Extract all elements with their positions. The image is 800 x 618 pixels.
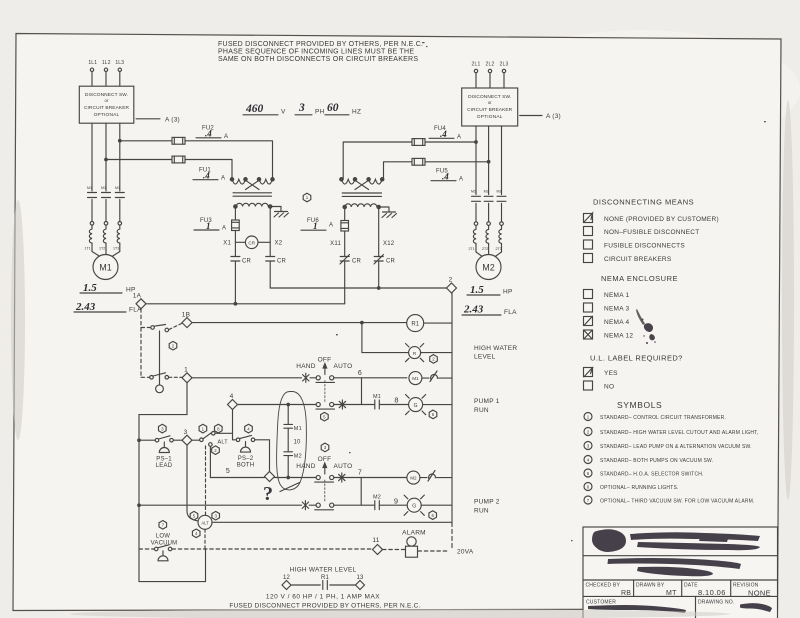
pressure switch PS-2 BOTH bbox=[236, 435, 255, 468]
svg-text:CR: CR bbox=[277, 259, 287, 265]
hand-drawn oval around M1/10/M2 contacts bbox=[277, 391, 307, 489]
node 11 diamond bbox=[372, 537, 382, 555]
dashed alarm rung 20VA bbox=[139, 549, 448, 551]
svg-text:.4: .4 bbox=[442, 172, 449, 182]
node 2 diamond bbox=[447, 277, 457, 294]
value label 2.43 FLA (handwritten) bbox=[74, 301, 142, 314]
node X11 bbox=[330, 231, 345, 256]
svg-text:PH: PH bbox=[315, 109, 325, 116]
svg-text:NONE: NONE bbox=[748, 588, 771, 597]
svg-text:X12: X12 bbox=[383, 241, 395, 247]
label HIGH WATER LEVEL (bottom) bbox=[290, 567, 357, 574]
svg-text:LOW: LOW bbox=[156, 534, 170, 540]
svg-text:8.10.06: 8.10.06 bbox=[698, 588, 726, 597]
node X12 bbox=[379, 209, 395, 256]
node 1L2 bbox=[102, 60, 111, 72]
alternator relay ALT bbox=[198, 515, 452, 549]
ground for T2 secondary bbox=[379, 207, 397, 218]
title block frame bbox=[583, 527, 778, 618]
label fused disconnect note (bottom) bbox=[229, 603, 420, 610]
value label 2.43 FLA motor 2 (handwritten) bbox=[462, 304, 517, 317]
fuse FU2 bbox=[119, 126, 273, 180]
title block redaction blob row 2 bbox=[608, 558, 742, 576]
svg-text:A: A bbox=[222, 226, 226, 232]
checkbox NONE (checked) bbox=[584, 213, 719, 223]
svg-text:HAND: HAND bbox=[296, 363, 315, 370]
svg-text:NEMA 12: NEMA 12 bbox=[604, 333, 633, 340]
svg-text:STANDARD– H.O.A. SELECTOR SWI: STANDARD– H.O.A. SELECTOR SWITCH. bbox=[600, 472, 704, 478]
svg-text:OFF: OFF bbox=[318, 456, 332, 463]
node X1 bbox=[223, 231, 235, 257]
contact CR (NC) on X12 bbox=[374, 255, 396, 289]
svg-text:NO: NO bbox=[604, 384, 614, 391]
svg-text:A (3): A (3) bbox=[546, 113, 561, 120]
symbol hexagon 2 (alarm light) bbox=[430, 355, 438, 364]
node label 8 bbox=[394, 396, 398, 405]
contact R1 (bottom) bbox=[291, 575, 356, 590]
svg-text:A (3): A (3) bbox=[165, 116, 180, 123]
svg-text:2.43: 2.43 bbox=[463, 304, 484, 316]
float switch contact A bbox=[151, 325, 169, 332]
selector 2 star contact (hand) bbox=[302, 501, 308, 510]
svg-text:X11: X11 bbox=[330, 241, 341, 247]
svg-text:HP: HP bbox=[503, 289, 513, 296]
symbol legend 7 bbox=[584, 496, 755, 505]
wire M2 feeder phase drops bbox=[476, 126, 502, 195]
selector 2 shaft with arrow bbox=[323, 463, 327, 503]
svg-text:FUSED DISCONNECT PROVIDED BY O: FUSED DISCONNECT PROVIDED BY OTHERS, PER… bbox=[218, 41, 423, 48]
wire dashes to node 1 bbox=[169, 376, 182, 378]
contact CR (NC) on X11 bbox=[340, 255, 362, 304]
svg-text:G: G bbox=[414, 403, 418, 409]
label PUMP 1 RUN bbox=[474, 398, 500, 414]
label A (3) for DS1 bbox=[136, 116, 180, 123]
svg-text:5: 5 bbox=[226, 468, 230, 475]
symbol legend 2 bbox=[584, 428, 758, 437]
svg-text:1: 1 bbox=[313, 221, 318, 231]
svg-text:6: 6 bbox=[358, 370, 362, 377]
node 13 diamond bbox=[356, 575, 365, 590]
checkbox NEMA 4 (checked) bbox=[584, 316, 630, 326]
svg-text:M2: M2 bbox=[410, 476, 417, 481]
svg-text:?: ? bbox=[263, 483, 273, 505]
transformer T2 core bbox=[342, 193, 381, 196]
svg-text:4: 4 bbox=[230, 393, 234, 400]
symbol hexagon 3 (PS-1) bbox=[159, 424, 167, 433]
svg-text:OPTIONAL– RUNNING LIGHTS.: OPTIONAL– RUNNING LIGHTS. bbox=[600, 485, 679, 491]
svg-text:HIGH WATER: HIGH WATER bbox=[474, 345, 517, 352]
heading NEMA ENCLOSURE bbox=[601, 274, 678, 283]
checkbox NON-FUSIBLE DISCONNECT bbox=[584, 227, 700, 237]
svg-text:FLA: FLA bbox=[504, 309, 517, 316]
value label 460 V (handwritten) bbox=[243, 103, 286, 116]
contactor coil M1 bbox=[409, 372, 422, 385]
svg-text:X1: X1 bbox=[223, 241, 231, 247]
checkbox NO bbox=[584, 381, 615, 391]
node label 9 bbox=[394, 497, 398, 506]
checkbox NEMA 3 bbox=[584, 303, 630, 313]
overload contact OL for M2 coil bbox=[420, 471, 452, 482]
symbol hexagon 7 (low vacuum sw) bbox=[159, 521, 167, 530]
auxiliary contact M1 bbox=[373, 394, 381, 409]
wire left rail dashed (float switch feed) bbox=[141, 309, 151, 378]
svg-text:M1: M1 bbox=[99, 263, 112, 273]
heading U.L. LABEL REQUIRED? bbox=[590, 354, 683, 363]
svg-text:R1: R1 bbox=[321, 575, 330, 581]
wire node 1 down to left rail bbox=[139, 383, 187, 582]
svg-text:2T2: 2T2 bbox=[482, 247, 488, 251]
svg-text:PHASE SEQUENCE OF INCOMING LIN: PHASE SEQUENCE OF INCOMING LINES MUST BE… bbox=[218, 49, 414, 56]
svg-text:YES: YES bbox=[604, 370, 618, 377]
pilot light R (high water alarm) bbox=[406, 344, 453, 362]
svg-text:HAND: HAND bbox=[296, 463, 315, 470]
svg-text:.4: .4 bbox=[440, 129, 447, 139]
svg-text:SAME ON BOTH DISCONNECTS OR CI: SAME ON BOTH DISCONNECTS OR CIRCUIT BREA… bbox=[218, 56, 418, 63]
svg-text:CR: CR bbox=[242, 259, 252, 265]
svg-text:M1: M1 bbox=[87, 186, 92, 190]
svg-text:SYMBOLS: SYMBOLS bbox=[617, 400, 662, 410]
symbol hexagon 2 (float sw) bbox=[169, 341, 177, 350]
node 6 junction bbox=[358, 370, 362, 405]
svg-text:OPTIONAL: OPTIONAL bbox=[94, 112, 120, 118]
svg-text:1L3: 1L3 bbox=[115, 60, 124, 66]
svg-text:HZ: HZ bbox=[352, 109, 361, 116]
label PUMP 2 RUN bbox=[474, 499, 500, 515]
svg-text:NON–FUSIBLE DISCONNECT: NON–FUSIBLE DISCONNECT bbox=[604, 229, 699, 236]
svg-text:9: 9 bbox=[394, 497, 398, 506]
overload contact OL for M1 coil bbox=[422, 371, 452, 382]
pressure switch PS-1 LEAD bbox=[155, 436, 173, 469]
pilot light G pump 2 bbox=[404, 495, 452, 515]
selector 2 contacts bottom bbox=[315, 503, 334, 510]
ink blot near NEMA 4 bbox=[636, 309, 656, 344]
svg-text:M1: M1 bbox=[294, 426, 302, 432]
svg-text:RUN: RUN bbox=[474, 508, 489, 515]
transformer T2 secondary bbox=[343, 204, 380, 209]
symbol legend 3 bbox=[584, 442, 752, 451]
value label 60 HZ (handwritten) bbox=[325, 102, 361, 116]
symbol hexagon 3 (selector 2) bbox=[321, 443, 329, 452]
wire drop to R lamp rung bbox=[362, 323, 409, 353]
alternator switch ALT bbox=[192, 432, 233, 447]
customer redaction blob bbox=[588, 605, 686, 613]
svg-text:ALT: ALT bbox=[201, 520, 209, 525]
wire M1 feeder phase drops bbox=[92, 123, 120, 191]
symbol hexagon 2 (below alt) bbox=[212, 446, 220, 455]
heading DISCONNECTING MEANS bbox=[593, 198, 694, 207]
svg-text:STANDARD– LEAD PUMP ON & ALTE: STANDARD– LEAD PUMP ON & ALTERNATION VAC… bbox=[600, 444, 752, 450]
symbol hexagon 4 (alt relay) bbox=[192, 529, 200, 538]
svg-text:2T3: 2T3 bbox=[496, 247, 502, 251]
svg-text:DRAWING NO.: DRAWING NO. bbox=[698, 600, 734, 606]
node 12 diamond bbox=[282, 575, 291, 590]
svg-text:CIRCUIT BREAKERS: CIRCUIT BREAKERS bbox=[604, 256, 672, 263]
svg-text:M1: M1 bbox=[101, 186, 106, 190]
svg-text:2L1: 2L1 bbox=[472, 62, 481, 68]
motor M2 bbox=[476, 255, 501, 280]
symbol hexagon 5 (selector 1) bbox=[321, 412, 329, 421]
label LOW VACUUM bbox=[151, 534, 178, 547]
fuse FU5 bbox=[384, 158, 490, 182]
value label 1.5 HP (handwritten) bbox=[80, 282, 136, 294]
low vacuum pressure switch bbox=[154, 545, 172, 561]
symbol legend 5 bbox=[584, 469, 704, 478]
rung 1B to relay R1 bbox=[192, 321, 407, 324]
label HIGH WATER LEVEL bbox=[474, 345, 517, 361]
svg-text:2L3: 2L3 bbox=[500, 62, 509, 68]
checkbox YES (checked) bbox=[584, 367, 619, 377]
fuse FU4 bbox=[343, 126, 477, 179]
ground for T1 secondary bbox=[270, 207, 288, 218]
title block labels bbox=[586, 583, 771, 606]
svg-text:M1: M1 bbox=[115, 186, 120, 190]
svg-text:M2: M2 bbox=[373, 495, 381, 501]
svg-text:20VA: 20VA bbox=[457, 549, 474, 556]
svg-text:HIGH WATER LEVEL: HIGH WATER LEVEL bbox=[290, 567, 357, 574]
wire rung 1A (X1/X11 hot) bbox=[146, 303, 345, 306]
svg-text:1L2: 1L2 bbox=[102, 60, 111, 66]
symbol hexagon 1 (control circuit transformer) bbox=[303, 193, 311, 202]
svg-text:OPTIONAL: OPTIONAL bbox=[477, 114, 503, 120]
wire 2L1-2L3 drops into disconnect switch 2 bbox=[476, 73, 504, 88]
float switch contact B bbox=[150, 373, 169, 379]
symbol legend 6 bbox=[584, 483, 679, 492]
svg-text:STANDARD– CONTROL CIRCUIT TRA: STANDARD– CONTROL CIRCUIT TRANSFORMER. bbox=[600, 415, 726, 421]
alarm bell bbox=[402, 530, 426, 558]
checkbox NEMA 1 bbox=[584, 290, 630, 300]
rung 9: left rail to G lamp 2 bbox=[138, 504, 408, 507]
svg-text:1.5: 1.5 bbox=[470, 284, 484, 296]
fuse FU3 bbox=[194, 208, 239, 231]
svg-text:M2: M2 bbox=[497, 190, 502, 194]
svg-text:CHECKED BY: CHECKED BY bbox=[586, 583, 621, 589]
fuse FU6 bbox=[301, 209, 349, 231]
svg-text:1T1: 1T1 bbox=[85, 247, 91, 251]
disconnect switch DS2 (optional) bbox=[462, 88, 518, 126]
svg-text:CUSTOMER: CUSTOMER bbox=[586, 600, 616, 606]
svg-text:NONE (PROVIDED BY CUSTOMER): NONE (PROVIDED BY CUSTOMER) bbox=[604, 216, 719, 223]
symbol hexagon 6 (running light 2) bbox=[429, 511, 437, 520]
selector 2 labels HAND OFF AUTO bbox=[296, 456, 352, 470]
rung 1: H-O-A selector 1 top row bbox=[192, 377, 407, 379]
value label 3 PH (handwritten) bbox=[295, 102, 325, 116]
svg-text:A: A bbox=[459, 177, 463, 183]
svg-text:.4: .4 bbox=[203, 171, 210, 181]
selector 1 star contact (hand) bbox=[303, 373, 309, 382]
svg-text:1T3: 1T3 bbox=[113, 247, 119, 251]
svg-text:CIRCUIT BREAKER: CIRCUIT BREAKER bbox=[467, 107, 513, 113]
symbol hexagon 5 (alt relay) bbox=[190, 511, 198, 520]
wire PS-2 to node 5 bbox=[255, 440, 270, 472]
svg-text:460: 460 bbox=[245, 103, 264, 115]
svg-text:3: 3 bbox=[298, 102, 305, 114]
svg-text:1.5: 1.5 bbox=[83, 282, 97, 294]
transformer T1 secondary bbox=[234, 203, 272, 208]
svg-text:NEMA ENCLOSURE: NEMA ENCLOSURE bbox=[601, 274, 678, 283]
selector 1 star contact (auto) bbox=[339, 400, 345, 409]
transformer T1 primary bbox=[230, 178, 274, 190]
relay coil CR bbox=[235, 236, 270, 249]
auxiliary contact M2 bbox=[373, 495, 381, 510]
contact CR on X1 bbox=[231, 257, 252, 304]
title block redaction blob row 1 bbox=[592, 529, 760, 552]
svg-text:MT: MT bbox=[666, 590, 677, 597]
svg-text:or: or bbox=[105, 98, 109, 103]
symbol hexagon 8 (alt sw) bbox=[215, 424, 223, 433]
svg-text:DISCONNECTING MEANS: DISCONNECTING MEANS bbox=[593, 198, 694, 207]
svg-text:A: A bbox=[457, 135, 461, 141]
svg-text:1L1: 1L1 bbox=[88, 60, 97, 66]
svg-text:A: A bbox=[329, 223, 333, 229]
disconnect switch DS1 (optional) bbox=[79, 86, 134, 123]
node 1L1 bbox=[88, 60, 97, 72]
svg-text:11: 11 bbox=[372, 537, 379, 544]
heading SYMBOLS bbox=[617, 400, 662, 410]
checkbox CIRCUIT BREAKERS bbox=[584, 254, 672, 264]
rung 8: node 4 to G lamp 1 bbox=[238, 404, 409, 406]
node 4 diamond bbox=[228, 393, 238, 410]
contactor M2 power contacts bbox=[471, 190, 506, 226]
svg-text:1B: 1B bbox=[182, 312, 190, 319]
low vacuum box outline bbox=[139, 549, 206, 582]
svg-text:M2: M2 bbox=[471, 190, 476, 194]
wire right ladder rail bbox=[451, 293, 453, 549]
svg-text:RB: RB bbox=[621, 590, 631, 597]
svg-text:ALARM: ALARM bbox=[402, 530, 426, 537]
contactor M1 power contacts bbox=[87, 186, 124, 225]
svg-text:M2: M2 bbox=[294, 454, 302, 460]
selector 1 labels HAND OFF AUTO bbox=[296, 357, 352, 371]
symbol legend 4 bbox=[584, 456, 713, 465]
svg-text:DRAWN BY: DRAWN BY bbox=[636, 583, 665, 589]
svg-text:AUTO: AUTO bbox=[334, 463, 353, 470]
svg-text:8: 8 bbox=[394, 396, 398, 405]
svg-text:FUSED DISCONNECT PROVIDED BY O: FUSED DISCONNECT PROVIDED BY OTHERS, PER… bbox=[229, 603, 420, 610]
interlock contact string M1 / 10 / M2 bbox=[284, 403, 302, 479]
svg-text:DATE: DATE bbox=[684, 583, 698, 589]
selector 1 shaft with arrow bbox=[323, 364, 327, 404]
transformer T2 primary bbox=[340, 178, 384, 190]
wire rung 2 (X2/X12 common to node 2) bbox=[270, 287, 446, 290]
label 120V rating bbox=[266, 594, 380, 601]
overload heaters M2 bbox=[469, 225, 502, 256]
checkbox FUSIBLE DISCONNECTS bbox=[584, 240, 686, 250]
fuse FU1 bbox=[105, 156, 232, 181]
svg-text:2: 2 bbox=[449, 277, 453, 284]
svg-text:ALT: ALT bbox=[218, 440, 229, 446]
svg-text:RUN: RUN bbox=[474, 407, 489, 414]
float switch mechanical link and ball bbox=[156, 331, 164, 393]
overload heaters M1 bbox=[85, 225, 120, 256]
svg-text:2L2: 2L2 bbox=[486, 62, 495, 68]
svg-text:CR: CR bbox=[386, 259, 396, 265]
svg-text:A: A bbox=[221, 176, 225, 182]
contact CR on X2 bbox=[266, 257, 287, 289]
transformer T1 core bbox=[233, 193, 272, 196]
svg-text:U.L. LABEL REQUIRED?: U.L. LABEL REQUIRED? bbox=[590, 354, 683, 363]
svg-text:or: or bbox=[488, 100, 492, 105]
svg-text:X2: X2 bbox=[275, 241, 283, 247]
node 1A diamond bbox=[133, 293, 146, 309]
label A (3) for DS2 bbox=[520, 113, 561, 120]
svg-text:2T1: 2T1 bbox=[469, 247, 475, 251]
svg-text:PS–1: PS–1 bbox=[156, 457, 172, 463]
svg-text:NEMA 1: NEMA 1 bbox=[604, 292, 629, 299]
svg-text:1T2: 1T2 bbox=[99, 247, 105, 251]
svg-text:PUMP 2: PUMP 2 bbox=[474, 499, 500, 506]
svg-text:LEAD: LEAD bbox=[156, 463, 173, 469]
svg-text:CR: CR bbox=[248, 240, 255, 245]
node 5 diamond bbox=[226, 468, 275, 482]
svg-text:10: 10 bbox=[294, 440, 302, 446]
svg-text:CR: CR bbox=[352, 259, 362, 265]
node 7 junction bbox=[358, 470, 362, 506]
svg-text:LEVEL: LEVEL bbox=[474, 354, 496, 361]
rung PS-1: left rail to alternator switch bbox=[138, 439, 182, 442]
pilot light G pump 1 bbox=[406, 395, 453, 415]
wire dashes to node 1B bbox=[169, 324, 182, 330]
node 2L3 bbox=[500, 62, 509, 73]
svg-text:OPTIONAL– THIRD VACUUM SW. FO: OPTIONAL– THIRD VACUUM SW. FOR LOW VACUU… bbox=[600, 499, 755, 505]
svg-text:PUMP 1: PUMP 1 bbox=[474, 398, 500, 405]
node 1L3 bbox=[115, 60, 124, 72]
svg-text:V: V bbox=[281, 109, 286, 116]
svg-text:7: 7 bbox=[358, 470, 362, 477]
svg-text:AUTO: AUTO bbox=[334, 363, 353, 370]
svg-text:STANDARD– BOTH PUMPS ON VACUU: STANDARD– BOTH PUMPS ON VACUUM SW. bbox=[600, 458, 713, 464]
svg-text:M1: M1 bbox=[412, 376, 419, 381]
node 2L1 bbox=[472, 62, 481, 73]
svg-text:M1: M1 bbox=[373, 394, 381, 400]
svg-text:M2: M2 bbox=[484, 190, 489, 194]
symbol hexagon 4 (PS-2) bbox=[245, 424, 253, 433]
svg-text:M2: M2 bbox=[482, 263, 495, 273]
symbol hexagon 3 (alt relay) bbox=[212, 511, 220, 520]
svg-text:FUSIBLE DISCONNECTS: FUSIBLE DISCONNECTS bbox=[604, 243, 685, 250]
selector 1 contacts bottom bbox=[316, 402, 335, 409]
node 2L2 bbox=[486, 62, 495, 73]
svg-text:2.43: 2.43 bbox=[75, 301, 96, 313]
contactor coil M2 bbox=[407, 471, 420, 484]
selector 2 contacts top bbox=[315, 475, 334, 482]
wire 1L1-1L3 drops into disconnect switch 1 bbox=[92, 72, 120, 87]
motor M1 bbox=[93, 255, 118, 280]
relay coil R1 bbox=[407, 315, 452, 332]
svg-text:G: G bbox=[412, 504, 416, 510]
node 1B diamond bbox=[182, 312, 192, 328]
svg-text:A: A bbox=[224, 134, 228, 140]
symbol hexagon 6 (running light 1) bbox=[429, 410, 437, 419]
svg-text:NEMA 3: NEMA 3 bbox=[604, 306, 629, 313]
svg-text:STANDARD– HIGH WATER LEVEL CU: STANDARD– HIGH WATER LEVEL CUTOUT AND AL… bbox=[600, 430, 758, 436]
node X2 bbox=[270, 208, 283, 256]
svg-text:BOTH: BOTH bbox=[237, 463, 254, 469]
symbol hexagon 1 (alt sw) bbox=[199, 424, 207, 433]
label 20VA bbox=[457, 549, 474, 556]
svg-text:1A: 1A bbox=[133, 293, 142, 300]
svg-text:60: 60 bbox=[327, 102, 339, 114]
drawing no. redaction blob bbox=[740, 603, 772, 612]
svg-text:OFF: OFF bbox=[318, 357, 332, 364]
svg-text:.4: .4 bbox=[205, 129, 212, 139]
checkbox NEMA 12 (crossed) bbox=[584, 330, 634, 340]
value label 1.5 HP motor 2 (handwritten) bbox=[467, 284, 513, 296]
selector 1 contacts top bbox=[316, 376, 335, 383]
scan speckle marks bbox=[336, 42, 766, 541]
note: top N.E.C. annotation text bbox=[218, 41, 423, 63]
wire dashed feed to alternator relay bbox=[205, 446, 207, 515]
svg-text:CIRCUIT BREAKER: CIRCUIT BREAKER bbox=[84, 105, 130, 111]
